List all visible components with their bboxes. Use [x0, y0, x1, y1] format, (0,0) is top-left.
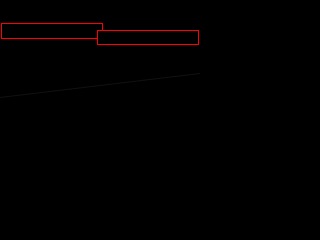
faint diagonal line [0, 74, 200, 98]
red outlined window box 1 (back, partly occluded) [2, 24, 103, 39]
red outlined window box 2 (front, black fill occludes box 1) [98, 31, 199, 45]
black background [0, 0, 200, 113]
